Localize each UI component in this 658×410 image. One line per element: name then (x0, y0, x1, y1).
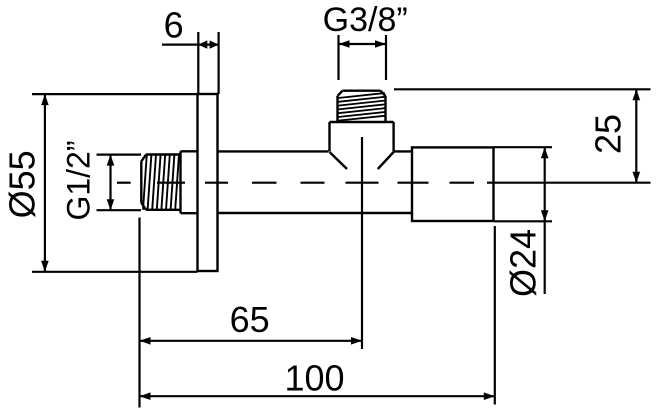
right outlet cylinder (412, 147, 494, 221)
dimension G3/8: dimension line (339, 43, 387, 45)
dimension G3/8: extension lines (339, 35, 387, 80)
svg-text:G1/2”: G1/2” (61, 140, 97, 220)
svg-text:6: 6 (164, 4, 184, 45)
svg-text:Ø55: Ø55 (2, 150, 43, 218)
top outlet port base (330, 122, 394, 151)
dimension 100: dimension line (140, 395, 495, 397)
wall flange plate (198, 94, 218, 271)
dimension 6: extension lines (198, 32, 218, 94)
dimension 25: arrow down (633, 172, 641, 183)
bottom right extension line (494, 226, 496, 405)
dimension D55: arrow down (41, 261, 49, 272)
dimension G1/2: dimension line (109, 155, 111, 211)
G3/8 outlet thread outline (338, 91, 386, 122)
dimension D55: dimension line (44, 94, 46, 272)
dimension 100: arrow left (140, 392, 151, 400)
dimension D55: arrow up (41, 94, 49, 105)
dimension 25: dimension line (635, 89, 637, 182)
svg-text:65: 65 (230, 299, 270, 340)
dimension 65: dimension line (140, 340, 363, 342)
svg-text:G3/8”: G3/8” (323, 1, 408, 39)
G1/2 thread hatch lines (143, 155, 179, 210)
valve body tube (218, 151, 413, 213)
svg-text:Ø24: Ø24 (503, 229, 544, 297)
body chamfer right (378, 152, 394, 169)
collar between inlet thread and flange (181, 151, 198, 213)
dimension 6: arrow left (198, 40, 207, 48)
body chamfer left (330, 152, 348, 169)
dimension G3/8: arrow right (375, 40, 386, 48)
dimension D24: arrow up (541, 147, 549, 158)
svg-text:25: 25 (587, 114, 628, 154)
dimension 100: arrow right (484, 392, 495, 400)
dimension 25: arrow up (633, 89, 641, 100)
dimension G1/2: arrow up (107, 155, 115, 166)
vertical center line of top port (361, 137, 363, 349)
dimension G3/8: arrow left (339, 40, 350, 48)
dimension 65: arrow right (351, 337, 362, 345)
dimension 25: extension line (394, 88, 651, 90)
svg-text:100: 100 (284, 357, 344, 398)
horizontal center line (dashed) (117, 182, 651, 184)
dimension D24: extension lines (495, 147, 553, 221)
dimension D24: arrow down (541, 210, 549, 221)
dimension D55: extension lines (32, 94, 198, 272)
dimension 6: dimension line (162, 43, 219, 45)
dimension G1/2: extension lines (97, 155, 142, 211)
bottom left extension line (138, 218, 140, 408)
dimension G1/2: arrow down (107, 199, 115, 210)
G3/8 thread hatch lines (338, 93, 385, 121)
dimension 6: arrow right (210, 40, 219, 48)
dimension 65: arrow left (140, 337, 151, 345)
G1/2 inlet thread outline (141, 155, 180, 210)
dimension D24: dimension line with tail (544, 147, 546, 294)
